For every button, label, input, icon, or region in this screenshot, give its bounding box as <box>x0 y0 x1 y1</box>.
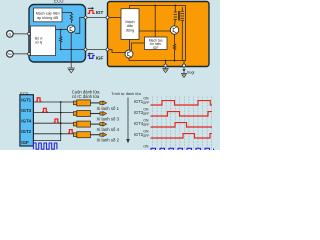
svg-text:IGT3: IGT3 <box>21 108 31 113</box>
svg-text:IGF: IGF <box>21 140 29 145</box>
svg-text:xử lý: xử lý <box>35 40 43 44</box>
svg-text:OFF: OFF <box>143 112 150 116</box>
svg-text:Mạch cấp điện: Mạch cấp điện <box>36 11 60 15</box>
svg-text:IGT2: IGT2 <box>21 129 31 134</box>
svg-text:Ne: Ne <box>8 52 12 56</box>
svg-text:IGT1: IGT1 <box>21 97 31 102</box>
svg-text:Xi lanh số 3: Xi lanh số 3 <box>97 117 120 122</box>
svg-text:ECU: ECU <box>54 0 64 3</box>
svg-text:IGF: IGF <box>153 46 159 50</box>
svg-text:áp không đổi: áp không đổi <box>37 16 58 20</box>
svg-text:OFF: OFF <box>143 134 150 138</box>
svg-text:Xi lanh số 4: Xi lanh số 4 <box>97 127 120 132</box>
svg-text:OFF: OFF <box>143 123 150 127</box>
svg-text:Bugi: Bugi <box>187 70 194 74</box>
svg-text:Xi lanh số 2: Xi lanh số 2 <box>97 138 120 143</box>
svg-text:G: G <box>9 32 12 36</box>
svg-text:IGT4: IGT4 <box>21 119 31 124</box>
svg-text:động: động <box>126 28 134 32</box>
svg-text:IGF: IGF <box>96 56 104 61</box>
svg-text:Xi lanh số 1: Xi lanh số 1 <box>97 106 120 111</box>
svg-text:OFF: OFF <box>143 101 150 105</box>
svg-text:có IC đánh lửa: có IC đánh lửa <box>72 94 100 99</box>
svg-text:IGT: IGT <box>96 10 104 15</box>
svg-text:ON: ON <box>143 145 149 149</box>
svg-text:Trình tự đánh lửa: Trình tự đánh lửa <box>111 92 141 96</box>
